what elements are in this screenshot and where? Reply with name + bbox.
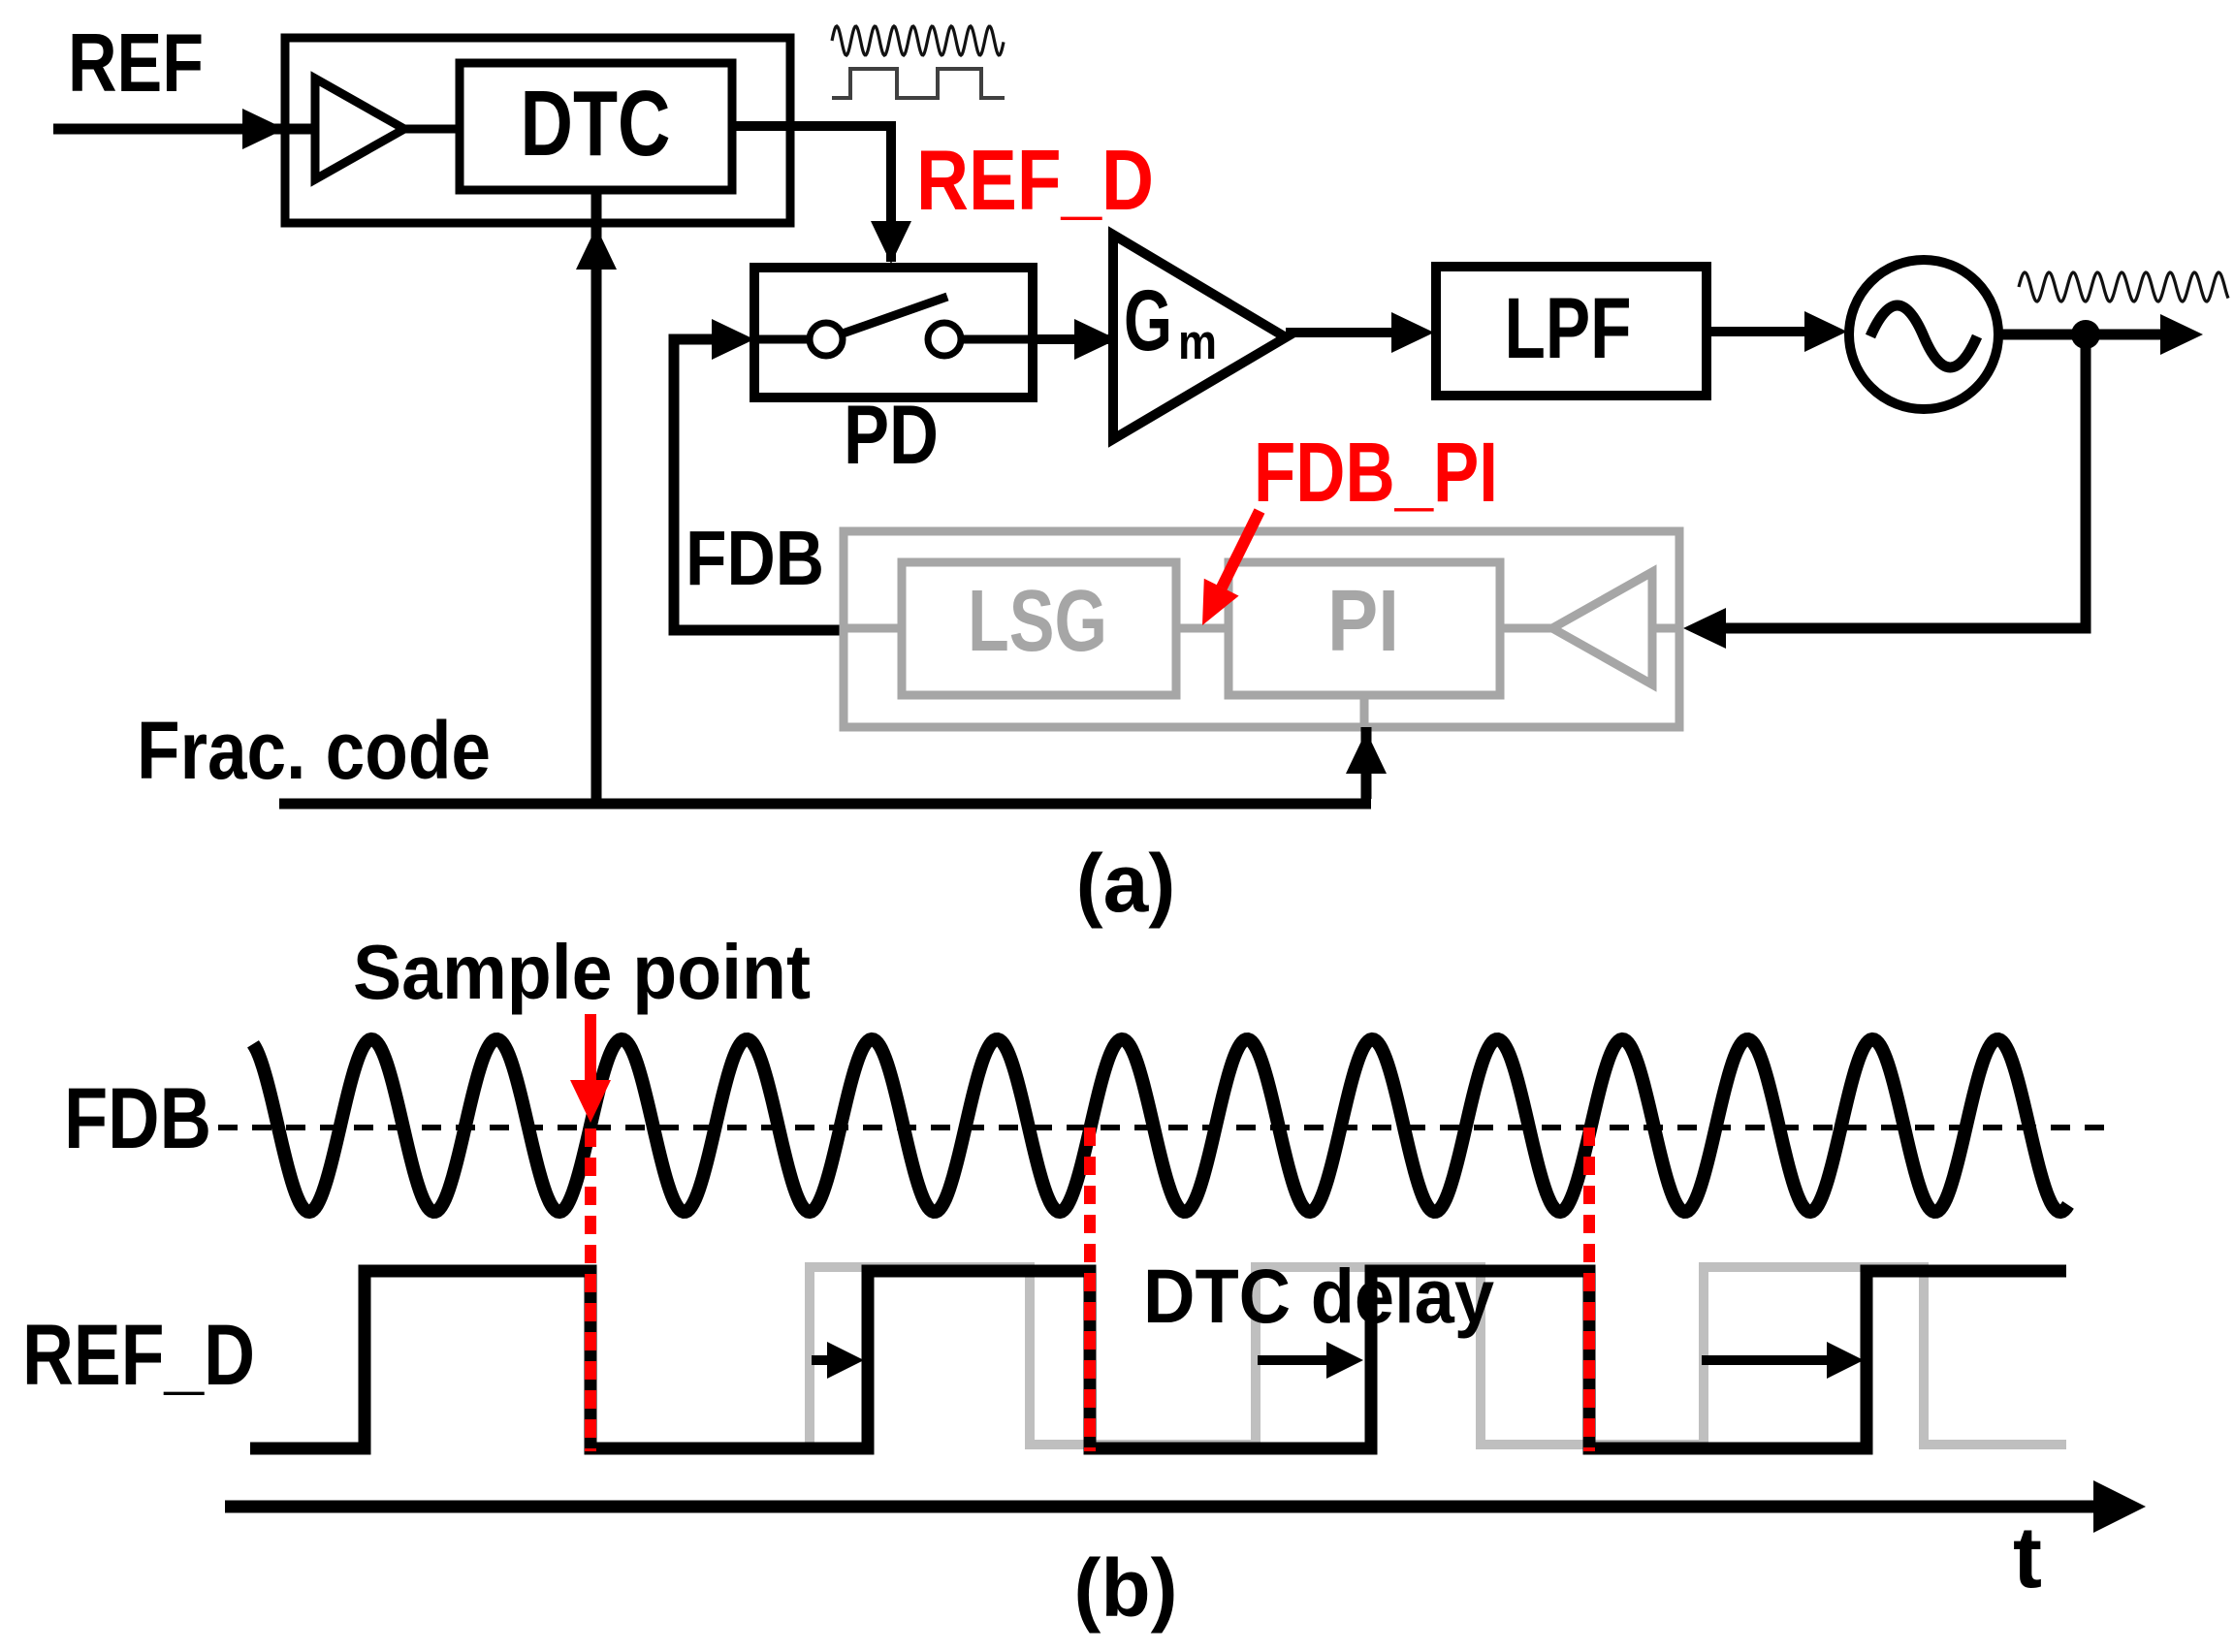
svg-text:(b): (b) [1073, 1542, 1177, 1634]
svg-text:LSG: LSG [968, 573, 1107, 670]
svg-text:FDB_PI: FDB_PI [1254, 426, 1498, 520]
svg-text:REF: REF [68, 17, 204, 110]
svg-text:(a): (a) [1076, 838, 1176, 929]
svg-text:FDB: FDB [64, 1069, 211, 1166]
svg-text:t: t [2013, 1509, 2042, 1606]
svg-text:LPF: LPF [1505, 279, 1632, 376]
svg-text:DTC: DTC [521, 72, 671, 175]
svg-text:PI: PI [1327, 573, 1399, 670]
svg-text:Sample point: Sample point [353, 929, 811, 1015]
svg-text:m: m [1178, 314, 1217, 369]
svg-text:REF_D: REF_D [916, 132, 1154, 228]
svg-text:REF_D: REF_D [22, 1306, 255, 1403]
svg-text:PD: PD [844, 389, 939, 482]
svg-text:G: G [1124, 271, 1172, 368]
svg-text:FDB: FDB [686, 515, 824, 601]
svg-text:DTC delay: DTC delay [1143, 1253, 1494, 1339]
svg-text:Frac. code: Frac. code [137, 705, 491, 796]
